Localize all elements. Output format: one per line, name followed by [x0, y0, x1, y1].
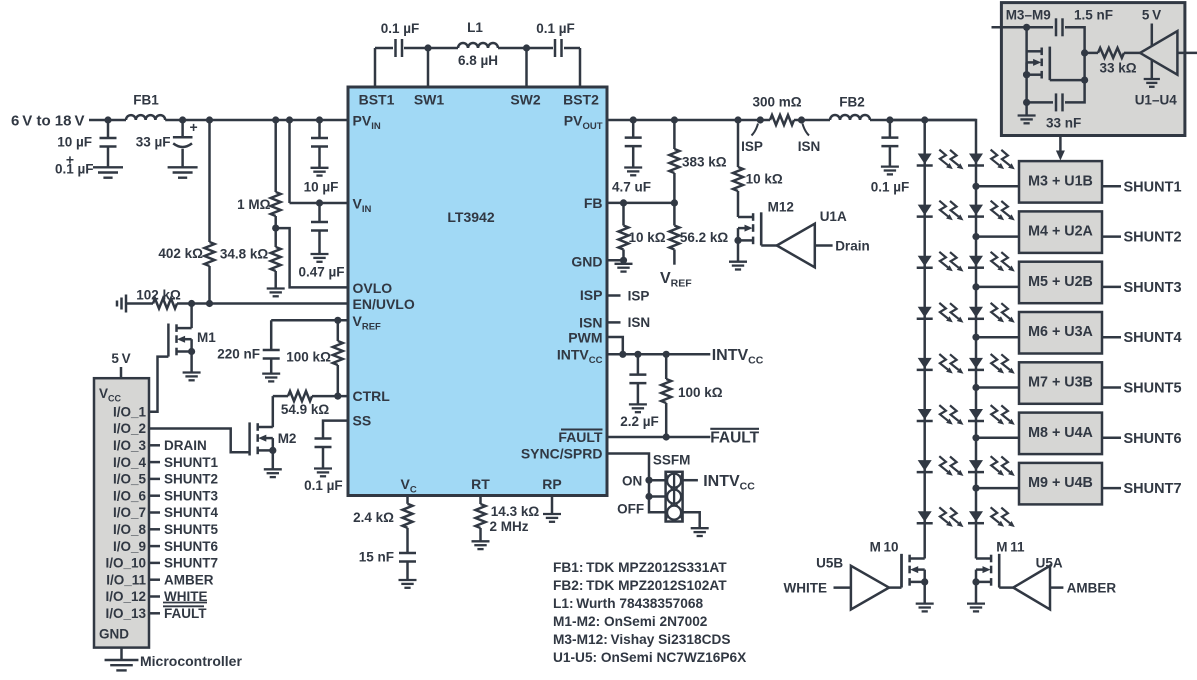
wire tap 5 to shunt box: [976, 386, 1019, 389]
value label 0.1 uF (input): [55, 162, 94, 177]
svg-text:OFF: OFF: [617, 502, 644, 517]
transistor M3-M9 (Si2318CDS): [1023, 47, 1050, 80]
ferrite bead FB2: [830, 115, 870, 120]
power 5 V (MCU): [111, 351, 130, 378]
ground (M2): [264, 469, 282, 477]
wire CTRL rail: [273, 395, 348, 398]
svg-text:M2: M2: [278, 431, 297, 446]
svg-text:AMBER: AMBER: [1067, 580, 1117, 595]
svg-text:OVLO: OVLO: [353, 280, 393, 296]
node junction after FB1: [179, 116, 186, 123]
svg-text:M 10: M 10: [870, 540, 899, 555]
wire right LED string: [890, 120, 976, 559]
wire 2.2uF stem: [637, 354, 640, 404]
svg-text:0.1 µF: 0.1 µF: [381, 21, 420, 36]
wire 0.47uF stem: [318, 203, 321, 254]
svg-text:M6 + U3A: M6 + U3A: [1028, 324, 1093, 340]
svg-text:SHUNT5: SHUNT5: [164, 522, 218, 537]
op-amp U1A buffer: [777, 224, 815, 268]
svg-text:I/O_13: I/O_13: [105, 606, 146, 621]
wire SHUNT3 stub: [1102, 286, 1121, 289]
capacitor 10 uF (PVIN): [311, 138, 328, 147]
ground (RT): [472, 541, 490, 549]
svg-text:SHUNT3: SHUNT3: [164, 488, 218, 503]
pin label PVOUT: [564, 113, 603, 133]
node jumper MID junction: [645, 493, 652, 500]
svg-text:ON: ON: [622, 474, 642, 489]
node PVOUT rail junction: [757, 116, 764, 123]
wire MCU GND stub: [120, 648, 123, 660]
wire 220nF stem: [270, 320, 273, 373]
wire SHUNT1 stub: [1102, 185, 1121, 188]
wire 33uF stem: [181, 120, 184, 167]
capacitor 0.47 uF: [311, 222, 328, 231]
svg-text:M3 + U1B: M3 + U1B: [1028, 173, 1093, 189]
svg-text:U1–U4: U1–U4: [1135, 93, 1178, 108]
pin label I/O_4: [113, 455, 147, 470]
net label ISP: [628, 288, 650, 303]
svg-text:WHITE: WHITE: [784, 580, 828, 595]
pin label SYNC/SPRD: [521, 446, 603, 462]
wire 4.7uF stem: [632, 120, 635, 167]
capacitor 0.1 uF (SS): [315, 439, 332, 448]
transistor M2 (2N7002): [250, 422, 277, 455]
node amber string tap 1: [972, 183, 979, 190]
wire RP stub: [551, 496, 554, 515]
svg-text:33 kΩ: 33 kΩ: [1099, 61, 1136, 76]
svg-text:ISN: ISN: [579, 315, 602, 331]
capacitor 15 nF: [399, 553, 416, 562]
svg-text:I/O_11: I/O_11: [106, 572, 146, 587]
transistor M11 (Si2318CDS): [972, 554, 999, 587]
svg-text:U5A: U5A: [1036, 556, 1063, 571]
svg-text:0.1 µF: 0.1 µF: [536, 21, 575, 36]
value label 0.1 uF (BST2): [536, 21, 575, 36]
node detail 33nF junction: [1023, 99, 1030, 106]
svg-text:I/O_4: I/O_4: [113, 455, 147, 470]
wire M3-M9 source rail: [1025, 27, 1028, 75]
node SW1 junction: [424, 44, 431, 51]
pin label RP: [542, 476, 561, 492]
ferrite bead FB1: [126, 115, 165, 120]
wire MCU pin stub SHUNT2: [149, 478, 160, 481]
value label 10 uF (PVIN): [304, 180, 339, 195]
svg-text:1 MΩ: 1 MΩ: [237, 197, 271, 212]
op-amp U5B buffer: [851, 566, 889, 610]
pin label I/O_13: [105, 606, 146, 621]
label Microcontroller: [140, 653, 242, 669]
ground (33uF): [168, 167, 198, 177]
wire VIN branch: [290, 120, 349, 203]
capacitor 220 nF: [263, 350, 280, 359]
wire detail input stub: [992, 26, 1054, 29]
node FAULT junction: [663, 433, 670, 440]
wire MCU pin stub SHUNT1: [149, 461, 160, 464]
pin label I/O_6: [113, 488, 147, 503]
wire INTVCC rail: [607, 353, 710, 356]
node GND junction: [620, 257, 627, 264]
svg-text:FAULT: FAULT: [164, 606, 207, 621]
svg-text:L1: L1: [467, 20, 483, 35]
svg-text:FB2: FB2: [839, 94, 865, 109]
BOM note line 1: [553, 560, 727, 575]
block M3 + U1B shunt switch: [1019, 161, 1102, 203]
node amber string tap 7: [972, 485, 979, 492]
wire BST2 stub: [579, 48, 582, 87]
node input junction 1: [104, 116, 111, 123]
LED D3 (white string): [917, 252, 964, 272]
capacitor 2.2 uF: [629, 375, 646, 384]
net label SHUNT6 (MCU): [164, 539, 218, 554]
wire ISN pin stub: [607, 321, 621, 324]
resistor 10 kOhm (ISP): [733, 120, 743, 217]
ground (MCU): [105, 660, 139, 670]
node VREF junction 100k: [334, 317, 341, 324]
value label 402 kOhm: [158, 246, 203, 261]
polarity + (33uF): [190, 119, 198, 135]
pin label FB: [584, 195, 603, 211]
resistor 34.8 kOhm: [271, 228, 281, 288]
pin label VC: [401, 476, 417, 496]
pin label I/O_5: [113, 472, 147, 487]
pin label BST1: [359, 92, 395, 108]
node junction 402k: [206, 116, 213, 123]
svg-text:SHUNT7: SHUNT7: [1124, 481, 1182, 497]
node amber string tap 6: [972, 434, 979, 441]
value label 220 nF: [217, 347, 260, 362]
wire MCU pin stub SHUNT6: [149, 545, 160, 548]
connector SSFM jumper block: [666, 472, 683, 522]
transistor M12 (Si2318CDS): [734, 212, 761, 245]
pin label GND (MCU): [99, 627, 129, 642]
wire 0.1uF out stem: [889, 120, 892, 166]
wire SHUNT6 stub: [1102, 437, 1121, 440]
value label 14.3 kOhm: [491, 504, 540, 519]
svg-text:100 kΩ: 100 kΩ: [678, 385, 723, 400]
capacitor 0.1 uF (output): [881, 138, 898, 147]
LED D13 (amber string): [968, 354, 1015, 374]
svg-text:SHUNT3: SHUNT3: [1124, 280, 1182, 296]
pin label I/O_3: [113, 438, 147, 453]
capacitor 0.1 uF (BST2): [555, 39, 562, 57]
value label 100 kOhm (VREF-CTRL): [286, 350, 331, 365]
pin label SW2: [510, 92, 541, 108]
svg-text:U1A: U1A: [820, 209, 847, 224]
net label SHUNT3 (MCU): [164, 488, 218, 503]
wire tap 4 to shunt box: [976, 336, 1019, 339]
svg-text:ISP: ISP: [741, 139, 763, 154]
svg-text:383 kΩ: 383 kΩ: [682, 155, 727, 170]
svg-text:ISN: ISN: [628, 315, 651, 330]
ground (M11): [967, 604, 985, 612]
node 1M/34.8k junction: [272, 225, 279, 232]
polarity + (input cap): [66, 151, 74, 167]
net label AMBER: [1067, 580, 1117, 595]
net label Drain: [835, 238, 870, 253]
value label 1.5 nF: [1074, 8, 1113, 23]
svg-text:6 V to 18 V: 6 V to 18 V: [11, 112, 85, 129]
wire tap 1 to shunt box: [976, 185, 1019, 188]
net label FAULT (overlined): [710, 429, 759, 447]
power 5 V (detail): [1142, 8, 1161, 46]
wire M1 gate to I/O_1: [149, 357, 168, 412]
node PVOUT rail junction: [886, 116, 893, 123]
node INTVCC junction 100k: [663, 351, 670, 358]
svg-text:SHUNT1: SHUNT1: [1124, 179, 1182, 195]
pin label GND: [571, 254, 602, 270]
block shunt detail box: [1001, 3, 1185, 136]
wire M12 gate: [761, 212, 777, 245]
svg-text:U1-U5: OnSemi NC7WZ16P6X: U1-U5: OnSemi NC7WZ16P6X: [553, 650, 747, 665]
wire M2 drain to 54.9k: [272, 396, 275, 427]
label OFF: [617, 502, 644, 517]
wire SYNC/SPRD to jumper: [607, 454, 666, 513]
svg-text:FAULT: FAULT: [710, 430, 759, 447]
pin label FAULT (IC, overlined): [558, 429, 603, 445]
wire SS cap to ground: [322, 447, 325, 469]
wire jumper to ground: [683, 512, 700, 528]
ref label U5B: [816, 556, 843, 571]
IC name label LT3942: [447, 209, 494, 225]
svg-text:+: +: [190, 119, 198, 135]
wire tap 6 to shunt box: [976, 437, 1019, 440]
value label 0.1 uF (output): [871, 180, 910, 195]
net label SHUNT1 (MCU): [164, 455, 218, 470]
svg-text:RP: RP: [542, 476, 561, 492]
wire VREF rail: [271, 319, 348, 322]
LED D9 (amber string): [968, 150, 1015, 170]
ref label FB2: [839, 94, 865, 109]
svg-text:SHUNT6: SHUNT6: [164, 539, 218, 554]
wire 10uF cap stem: [107, 120, 110, 167]
LED D11 (amber string): [968, 252, 1015, 272]
capacitor 0.1 uF (BST1): [396, 39, 403, 57]
svg-text:AMBER: AMBER: [164, 572, 214, 587]
svg-text:5 V: 5 V: [111, 351, 130, 366]
svg-text:M3–M9: M3–M9: [1006, 8, 1051, 23]
pin label BST2: [563, 92, 599, 108]
value label 56.2 kOhm: [680, 230, 729, 245]
value label 10 kOhm (ISP): [746, 172, 783, 187]
net label SHUNT4 (MCU): [164, 505, 218, 520]
wire tap 7 to shunt box: [976, 487, 1019, 490]
value label 33 nF: [1046, 116, 1081, 131]
wire left LED string: [923, 120, 926, 559]
svg-text:2 MHz: 2 MHz: [490, 519, 529, 534]
ground (220nF): [262, 374, 280, 382]
wire SW1 stub: [427, 48, 430, 87]
svg-text:SW1: SW1: [414, 92, 445, 108]
label SSFM: [653, 453, 691, 468]
wire detail output stub: [1177, 52, 1197, 55]
value label 0.1 uF (BST1): [381, 21, 420, 36]
node PVOUT rail junction: [798, 116, 805, 123]
ground (10uF PVIN): [311, 168, 329, 176]
ground (GND pin): [615, 264, 633, 272]
svg-text:0.47 µF: 0.47 µF: [298, 265, 344, 280]
LED D5 (white string): [917, 354, 964, 374]
pin label VREF (left): [353, 313, 382, 333]
svg-text:DRAIN: DRAIN: [164, 438, 207, 453]
BOM note line 3: [553, 596, 703, 611]
ground (U1-U4): [1144, 79, 1160, 87]
ground (M1): [183, 373, 201, 381]
wire PWM tie to INTVCC: [607, 337, 623, 354]
svg-text:RT: RT: [471, 476, 490, 492]
value label 2 MHz: [490, 519, 529, 534]
BOM note line 6: [553, 650, 747, 665]
svg-text:I/O_1: I/O_1: [113, 404, 147, 419]
BOM note line 4: [553, 614, 708, 629]
wire jumper row1: [649, 479, 666, 482]
node EN/UVLO junction M1: [188, 300, 195, 307]
wire detail to shunt block + arrow: [1056, 136, 1065, 161]
svg-text:LT3942: LT3942: [447, 209, 494, 225]
svg-text:BST2: BST2: [563, 92, 599, 108]
ground (jumper): [691, 528, 709, 536]
node detail drain junction: [1023, 71, 1030, 78]
svg-text:I/O_9: I/O_9: [113, 539, 146, 554]
svg-text:SS: SS: [353, 413, 372, 429]
wire jumper row2: [649, 495, 666, 498]
svg-text:I/O_12: I/O_12: [105, 589, 146, 604]
ground (SS cap): [314, 469, 332, 477]
LED D14 (amber string): [968, 405, 1015, 425]
node VIN junction 0.47uF: [316, 199, 323, 206]
value label 6.8 uH: [458, 53, 498, 68]
node amber string tap 2: [972, 233, 979, 240]
pin label VCC (MCU): [99, 386, 122, 404]
svg-text:SHUNT7: SHUNT7: [164, 556, 218, 571]
net label VREF (below 56.2k): [660, 270, 692, 290]
svg-text:GND: GND: [571, 254, 602, 270]
wire MCU pin stub SHUNT5: [149, 528, 160, 531]
net label FAULT (MCU): [163, 606, 207, 621]
pin label I/O_7: [113, 505, 146, 520]
svg-text:M4 + U2A: M4 + U2A: [1028, 224, 1093, 240]
pin label I/O_12: [105, 589, 146, 604]
svg-text:SHUNT1: SHUNT1: [164, 455, 218, 470]
ref label M10: [870, 540, 899, 555]
svg-text:2.4 kΩ: 2.4 kΩ: [353, 510, 394, 525]
svg-text:ISN: ISN: [798, 139, 821, 154]
node amber string tap 4: [972, 334, 979, 341]
svg-text:SHUNT2: SHUNT2: [164, 472, 218, 487]
block M9 + U4B shunt switch: [1019, 463, 1102, 505]
svg-text:10 µF: 10 µF: [304, 180, 339, 195]
block M8 + U4A shunt switch: [1019, 413, 1102, 455]
value label 10 uF (input): [57, 135, 92, 150]
op-amp U: LT3942 LED driver IC body: [348, 87, 607, 496]
node detail gate junction: [1081, 77, 1088, 84]
wire 33nF to gate node: [1065, 53, 1085, 103]
svg-text:FB1: FB1: [133, 93, 159, 108]
net label WHITE: [784, 580, 828, 595]
wire input rail: [89, 119, 348, 122]
ground (2.2uF): [629, 404, 647, 412]
svg-text:I/O_3: I/O_3: [113, 438, 147, 453]
node amber string tap 5: [972, 384, 979, 391]
wire M3-M9 drain/33nF rail: [1025, 75, 1028, 116]
resistor 14.3 kOhm: [476, 496, 486, 542]
LED D2 (white string): [917, 201, 964, 221]
LED D7 (white string): [917, 456, 964, 476]
BOM note line 5: [553, 632, 730, 647]
svg-text:0.1 µF: 0.1 µF: [55, 162, 94, 177]
svg-text:I/O_2: I/O_2: [113, 421, 146, 436]
ground (sideways, 102k): [117, 295, 126, 313]
svg-text:4.7 uF: 4.7 uF: [612, 180, 651, 195]
BOM note line 2: [553, 578, 727, 593]
ground (detail box): [1018, 116, 1036, 124]
svg-text:I/O_8: I/O_8: [113, 522, 147, 537]
value label 0.1 uF (SS): [304, 478, 343, 493]
svg-text:402 kΩ: 402 kΩ: [158, 246, 203, 261]
wire BST1 stub: [374, 48, 377, 87]
svg-text:L1: Wurth 78438357068: L1: Wurth 78438357068: [553, 596, 703, 611]
wire MCU pin stub WHITE: [149, 595, 160, 598]
svg-text:M1-M2: OnSemi 2N7002: M1-M2: OnSemi 2N7002: [553, 614, 708, 629]
capacitor 10 uF / 0.1 uF input: [100, 138, 117, 147]
wire M10 source to ground: [923, 582, 926, 604]
ground (M10): [916, 604, 934, 612]
wire OVLO connection: [276, 228, 348, 287]
wire MCU pin stub DRAIN: [149, 444, 160, 447]
pin label I/O_2: [113, 421, 146, 436]
wire FB rail: [607, 202, 674, 205]
node PVOUT rail junction: [630, 116, 637, 123]
resistor 10 kOhm (FB): [619, 203, 629, 260]
wire GND pin: [607, 259, 624, 262]
pin label I/O_10: [105, 556, 146, 571]
wire M2 gate to I/O_2: [149, 429, 250, 453]
label ON: [622, 474, 642, 489]
ref label U5A: [1036, 556, 1063, 571]
value label 2.4 kOhm: [353, 510, 394, 525]
net label SHUNT7: [1124, 481, 1182, 497]
pin label PWM: [568, 330, 602, 346]
block M6 + U3A shunt switch: [1019, 312, 1102, 354]
transistor M1 (2N7002): [168, 324, 195, 357]
svg-text:GND: GND: [99, 627, 129, 642]
wire M11 gate: [999, 554, 1013, 588]
svg-text:M8 + U4A: M8 + U4A: [1028, 425, 1093, 441]
value label 54.9 kOhm: [281, 402, 330, 417]
svg-text:2.2 µF: 2.2 µF: [620, 414, 659, 429]
net label SHUNT7 (MCU): [164, 556, 218, 571]
svg-text:I/O_6: I/O_6: [113, 488, 147, 503]
node INTVCC junction 2.2uF: [634, 351, 641, 358]
svg-text:15 nF: 15 nF: [359, 550, 394, 565]
wire 1.5nF to node B: [1065, 27, 1085, 53]
ref label FB1: [133, 93, 159, 108]
capacitor 4.7 uF: [625, 138, 642, 147]
node amber string tap 3: [972, 283, 979, 290]
svg-text:1.5 nF: 1.5 nF: [1074, 8, 1113, 23]
pin label I/O_9: [113, 539, 146, 554]
node FB junction 383k: [671, 199, 678, 206]
node SW2 junction: [523, 44, 530, 51]
block M5 + U2B shunt switch: [1019, 262, 1102, 304]
svg-text:Microcontroller: Microcontroller: [140, 653, 242, 669]
svg-text:M 11: M 11: [996, 540, 1025, 555]
svg-text:0.1 µF: 0.1 µF: [304, 478, 343, 493]
capacitor 1.5 nF: [1056, 18, 1063, 36]
node detail node B: [1081, 49, 1088, 56]
wire 33nF left: [1027, 101, 1053, 104]
op-amp U1-U4 buffer: [1140, 31, 1177, 75]
pin label ISN (IC): [579, 315, 602, 331]
